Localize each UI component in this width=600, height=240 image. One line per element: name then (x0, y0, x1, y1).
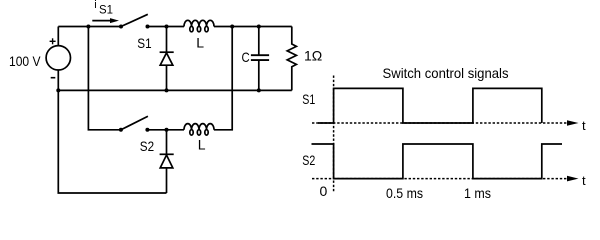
wire S2 to L2 (147, 129, 184, 131)
switch S2 blade (121, 116, 148, 130)
node: diode D1 bottom (165, 88, 169, 92)
svg-text:100 V: 100 V (9, 53, 41, 69)
S2 waveform (312, 144, 563, 179)
wire top rail mid (148, 26, 185, 28)
inductor L2 (184, 124, 214, 135)
voltage source V1 (100 V) (46, 46, 70, 70)
svg-text:0.5 ms: 0.5 ms (386, 185, 423, 201)
node: capacitor bottom (257, 88, 261, 92)
capacitor C (251, 27, 269, 91)
resistor R1 (1 ohm) (287, 27, 296, 91)
wire left return down (58, 90, 166, 193)
dashed t=0 gridline (333, 76, 335, 193)
node: diode D1 top (165, 25, 169, 29)
diode D1 (160, 27, 174, 91)
switch S2 contact dots (119, 128, 123, 132)
wire source bottom (57, 70, 59, 90)
S1 axis arrow (567, 120, 579, 126)
waveform panel (302, 65, 586, 201)
S1 axis (dotted) (312, 122, 567, 124)
svg-text:S2: S2 (140, 138, 154, 154)
svg-text:S2: S2 (302, 152, 315, 168)
wire phase-2 feed down (88, 27, 121, 130)
S2 axis arrow (567, 176, 579, 182)
svg-text:1Ω: 1Ω (304, 48, 322, 64)
node: capacitor top (257, 25, 261, 29)
svg-text:t: t (582, 173, 586, 188)
node: top rail to phase-2 feed (86, 25, 90, 29)
S2 axis (dotted) (312, 178, 567, 180)
svg-text:t: t (582, 118, 586, 133)
wire source top to rail (57, 27, 59, 46)
svg-text:S1: S1 (99, 3, 113, 17)
svg-text:S1: S1 (302, 91, 315, 107)
minus sign of source (51, 77, 56, 79)
switch S1 contact dots (119, 25, 123, 29)
wire top rail right (214, 26, 292, 28)
wire top rail left (58, 26, 121, 28)
svg-text:C: C (242, 49, 250, 65)
switch S1 blade (121, 14, 148, 26)
diode D2 (160, 130, 174, 193)
svg-text:S1: S1 (137, 35, 151, 51)
node: phase-2 top junction (230, 25, 234, 29)
S1 waveform (318, 88, 542, 123)
plus sign of source (50, 38, 56, 44)
svg-text:0: 0 (320, 183, 328, 199)
svg-text:1 ms: 1 ms (464, 185, 491, 201)
svg-text:L: L (198, 137, 206, 153)
svg-text:Switch control signals: Switch control signals (383, 65, 509, 81)
inductor L1 (184, 20, 214, 31)
wire bottom rail (58, 89, 291, 91)
node: source bottom junction (56, 88, 60, 92)
wire phase-2 riser (214, 27, 232, 130)
svg-text:L: L (196, 35, 204, 51)
current arrow iS1 (92, 20, 112, 22)
svg-text:i: i (94, 0, 96, 11)
node: diode D2 top (165, 128, 169, 132)
